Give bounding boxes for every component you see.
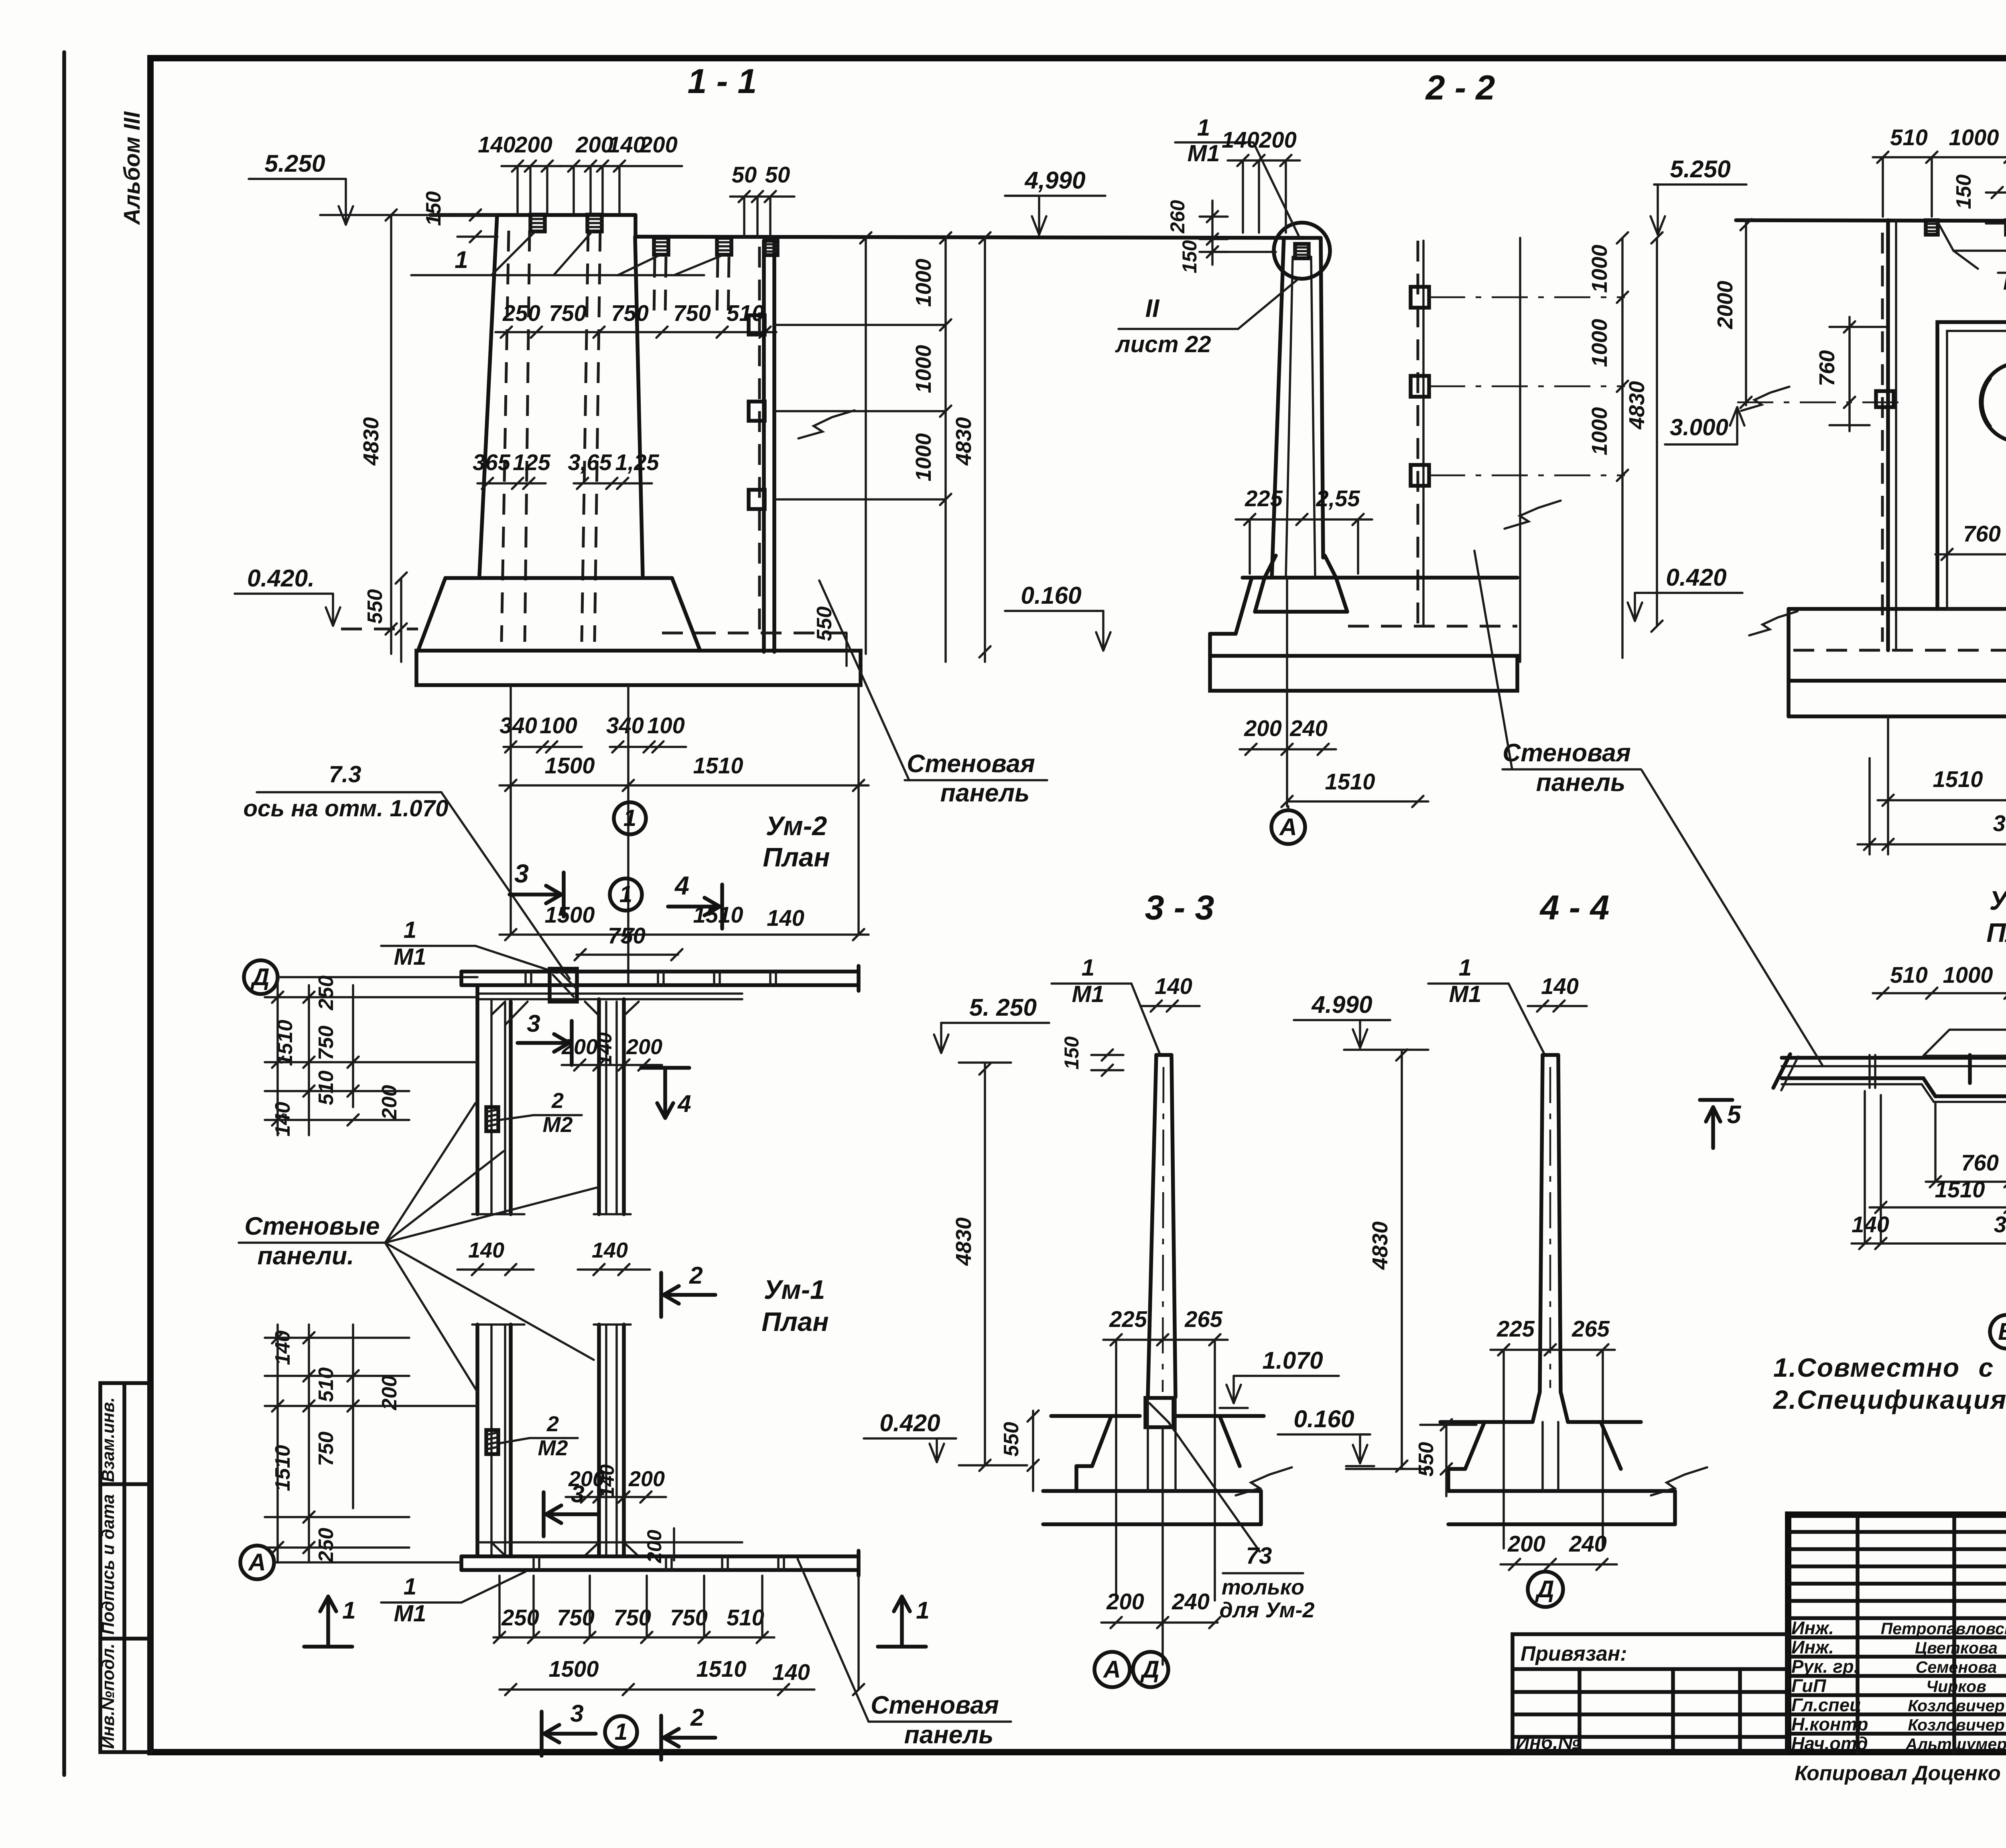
svg-text:5: 5 — [1727, 1101, 1742, 1129]
svg-text:4: 4 — [677, 1090, 691, 1117]
sheet outer trim line — [62, 52, 66, 1775]
section marks 3 / 1 / 4 above plan — [562, 872, 566, 917]
svg-text:4830: 4830 — [1625, 381, 1649, 430]
svg-text:750: 750 — [613, 1605, 651, 1630]
svg-text:Чирков: Чирков — [1926, 1677, 1986, 1696]
svg-text:1: 1 — [455, 246, 468, 273]
svg-text:1000: 1000 — [1588, 245, 1612, 293]
svg-text:Нач.отд: Нач.отд — [1791, 1733, 1868, 1754]
3-3 axis circles A D — [1094, 1652, 1130, 1687]
plan section mark 3 upper — [570, 1021, 574, 1065]
svg-text:225: 225 — [1496, 1316, 1535, 1341]
svg-text:Козловичер: Козловичер — [1908, 1696, 2004, 1715]
1-1 anchor leader diagonals — [491, 231, 535, 275]
svg-text:4.990: 4.990 — [1311, 991, 1373, 1018]
1-1 pos.1 leader line — [411, 274, 704, 276]
svg-text:ГиП: ГиП — [1791, 1676, 1827, 1696]
svg-text:Стеновая: Стеновая — [907, 750, 1035, 778]
svg-text:3020: 3020 — [1993, 811, 2006, 836]
svg-text:250: 250 — [314, 976, 337, 1011]
svg-text:Ум-2: Ум-2 — [766, 811, 827, 841]
1-1 dashed form lines col1 — [501, 231, 509, 642]
svg-text:750: 750 — [608, 923, 646, 948]
plan side section marks 1 — [304, 1645, 352, 1649]
svg-text:А: А — [248, 1548, 266, 1576]
svg-text:ось на отм. 1.070: ось на отм. 1.070 — [244, 795, 449, 822]
signature upper empty rows — [1788, 1530, 2006, 1534]
1-1 top slab line upper — [430, 213, 636, 217]
svg-text:2: 2 — [690, 1704, 704, 1731]
svg-text:II: II — [1145, 294, 1160, 323]
svg-text:250: 250 — [502, 300, 540, 326]
svg-text:2.Спецификация элементов см.: 2.Спецификация элементов см. л. л. КЖ -2… — [1773, 1385, 2006, 1414]
svg-text:140: 140 — [767, 905, 804, 931]
3-3 foundation — [1051, 1414, 1140, 1418]
svg-text:140: 140 — [1852, 1212, 1889, 1237]
svg-text:200: 200 — [628, 1467, 665, 1491]
5-5 dim verticals bottom — [1887, 716, 1889, 854]
2-2 hidden line 0.420 — [1348, 625, 1517, 628]
5-5 horizontal centerline — [1737, 402, 1906, 404]
1-1 wall left edge — [479, 215, 497, 575]
svg-text:1510: 1510 — [693, 902, 743, 927]
svg-text:750: 750 — [314, 1026, 337, 1061]
plan M1 joint box — [550, 969, 577, 1002]
svg-text:1510: 1510 — [271, 1445, 294, 1491]
1-1 dim verticals right — [865, 238, 867, 654]
svg-text:1: 1 — [1082, 955, 1094, 981]
svg-text:510: 510 — [1890, 125, 1928, 150]
svg-text:Копировал Доценко: Копировал Доценко — [1795, 1761, 2001, 1785]
5-5 wall tabs — [1876, 391, 1894, 407]
svg-text:М1: М1 — [1187, 140, 1220, 166]
plan upper fillets — [505, 1002, 528, 1025]
svg-text:1: 1 — [623, 805, 636, 831]
um5 M1 parallelogram — [1923, 1030, 2006, 1056]
svg-text:1: 1 — [404, 917, 416, 943]
svg-text:750: 750 — [314, 1432, 337, 1467]
svg-text:М2: М2 — [538, 1436, 568, 1460]
svg-text:1: 1 — [615, 1719, 627, 1745]
2-2 break mark — [1504, 501, 1561, 529]
svg-text:Ум-5: Ум-5 — [1990, 886, 2006, 916]
svg-text:200: 200 — [1244, 716, 1282, 741]
svg-text:План: План — [761, 1307, 828, 1337]
svg-text:5.250: 5.250 — [1670, 155, 1731, 183]
1-1 top slab line lower level — [636, 237, 1304, 238]
svg-text:Альтшумер: Альтшумер — [1905, 1735, 2006, 1753]
svg-text:750: 750 — [611, 300, 649, 326]
svg-text:Д: Д — [250, 963, 270, 990]
svg-text:М1: М1 — [394, 1601, 426, 1627]
svg-text:340: 340 — [499, 713, 537, 738]
1-1 foundation trapezoid — [445, 576, 672, 580]
signature rows — [1788, 1616, 2006, 1620]
svg-text:0.160: 0.160 — [1021, 582, 1082, 609]
axis A circle — [240, 1546, 274, 1579]
svg-text:365: 365 — [473, 450, 510, 475]
svg-text:4830: 4830 — [1368, 1221, 1392, 1270]
1-1 base slab — [416, 651, 861, 685]
plan bottom section marks — [540, 1712, 544, 1756]
um5 leader from left — [1642, 770, 1822, 1065]
svg-text:Д: Д — [1535, 1575, 1554, 1603]
1-1 4830 dim — [984, 238, 986, 662]
plan right vertical 4830 — [984, 1063, 986, 1465]
svg-text:140: 140 — [468, 1238, 504, 1262]
um5 panel top lines — [1782, 1056, 2006, 1060]
svg-text:панель: панель — [1536, 769, 1626, 797]
svg-text:5. 250: 5. 250 — [969, 994, 1037, 1021]
svg-text:125: 125 — [513, 450, 550, 475]
svg-text:лист 22: лист 22 — [1115, 331, 1211, 357]
plan section mark 2 upper-mid — [659, 1273, 663, 1317]
svg-text:М1: М1 — [394, 944, 426, 970]
svg-text:30 20: 30 20 — [1994, 1212, 2006, 1237]
5-5 left wall — [1886, 220, 1890, 650]
svg-text:Рук. гр.: Рук. гр. — [1791, 1656, 1859, 1677]
svg-text:4830: 4830 — [359, 417, 383, 466]
svg-text:1000: 1000 — [912, 433, 936, 481]
1-1 left 4830 dim — [390, 215, 392, 654]
svg-text:140: 140 — [1541, 974, 1579, 999]
3-3 M-box at base — [1145, 1398, 1174, 1427]
2-2 wall column — [1272, 238, 1284, 578]
svg-text:Гл.спец: Гл.спец — [1791, 1695, 1861, 1715]
3-3 central 4830 dim — [1401, 1050, 1403, 1469]
left attach table — [1513, 1634, 1788, 1752]
svg-text:1: 1 — [342, 1596, 356, 1624]
svg-text:Стеновая: Стеновая — [871, 1691, 999, 1719]
svg-text:0.420: 0.420 — [879, 1409, 940, 1436]
svg-text:760: 760 — [1963, 521, 2001, 546]
svg-text:140: 140 — [772, 1659, 810, 1685]
svg-text:200: 200 — [561, 1035, 598, 1059]
svg-text:550: 550 — [363, 589, 386, 624]
5-5 door opening — [1937, 322, 2006, 609]
svg-text:0.420: 0.420 — [1666, 564, 1727, 591]
plan bottom flange hatch ticks — [532, 1556, 535, 1570]
svg-text:140: 140 — [596, 1464, 618, 1497]
svg-text:1000: 1000 — [1588, 319, 1612, 367]
svg-text:250: 250 — [314, 1528, 337, 1563]
svg-text:3 - 3: 3 - 3 — [1145, 889, 1214, 927]
svg-text:А: А — [1102, 1655, 1121, 1683]
svg-text:0.160: 0.160 — [1293, 1405, 1354, 1432]
svg-text:100: 100 — [647, 713, 685, 738]
svg-text:510: 510 — [1890, 962, 1928, 988]
svg-text:200: 200 — [640, 132, 678, 157]
svg-text:Инж.: Инж. — [1791, 1618, 1834, 1638]
svg-text:200: 200 — [643, 1530, 666, 1563]
svg-text:только: только — [1222, 1575, 1304, 1599]
svg-text:1000: 1000 — [912, 259, 936, 307]
svg-text:550: 550 — [1414, 1442, 1437, 1477]
svg-text:М1: М1 — [1449, 981, 1481, 1007]
svg-text:2000: 2000 — [1713, 281, 1737, 329]
4-4 break right — [1651, 1467, 1707, 1495]
svg-text:2,55: 2,55 — [1316, 486, 1360, 511]
svg-text:50: 50 — [765, 162, 790, 187]
svg-text:200: 200 — [1259, 127, 1297, 152]
svg-text:140: 140 — [271, 1331, 294, 1365]
4-4 section mark 5 up — [1700, 1098, 1732, 1102]
svg-text:панель: панель — [940, 779, 1030, 807]
svg-text:1510: 1510 — [1325, 769, 1375, 794]
svg-text:760: 760 — [1815, 350, 1839, 386]
svg-text:3: 3 — [570, 1700, 584, 1727]
svg-text:100: 100 — [540, 713, 577, 738]
svg-text:Инб.№: Инб.№ — [1516, 1732, 1580, 1753]
svg-text:А: А — [1279, 813, 1297, 840]
svg-text:140: 140 — [592, 1238, 628, 1262]
svg-text:Ум-1: Ум-1 — [764, 1275, 825, 1305]
svg-text:4: 4 — [674, 871, 689, 900]
plan M2 hatch lower — [486, 1430, 498, 1454]
svg-text:М1: М1 — [1072, 981, 1104, 1007]
svg-text:510: 510 — [314, 1367, 337, 1402]
svg-text:1000: 1000 — [1949, 125, 1999, 150]
1-1 hidden foundation line — [662, 632, 859, 635]
svg-text:1510: 1510 — [693, 753, 743, 778]
svg-text:панель: панель — [904, 1721, 994, 1749]
svg-text:2 - 2: 2 - 2 — [1425, 69, 1495, 107]
3-3 73 leader — [1168, 1422, 1260, 1552]
2-2 tie lines dashdot — [1429, 296, 1625, 298]
svg-text:1: 1 — [1459, 955, 1472, 981]
svg-text:750: 750 — [673, 300, 711, 326]
svg-text:Семенова: Семенова — [1916, 1658, 1997, 1676]
svg-text:265: 265 — [1184, 1306, 1222, 1332]
svg-text:3: 3 — [514, 859, 529, 888]
svg-text:Стеновая: Стеновая — [1502, 739, 1631, 767]
1-1 break mark — [798, 410, 855, 438]
svg-text:150: 150 — [1178, 240, 1201, 273]
svg-text:Д: Д — [1140, 1655, 1159, 1683]
svg-text:1,25: 1,25 — [615, 450, 659, 475]
1-1 left level tie — [320, 214, 497, 216]
plan section mark 4 upper — [641, 1066, 689, 1070]
svg-text:План: План — [763, 842, 830, 872]
svg-text:Альбом III: Альбом III — [119, 111, 144, 225]
svg-text:140: 140 — [478, 132, 516, 157]
svg-text:150: 150 — [1060, 1036, 1083, 1069]
svg-text:1500: 1500 — [545, 902, 595, 927]
5-5 anchor plates top — [1926, 220, 1938, 235]
svg-text:150: 150 — [1952, 174, 1975, 209]
svg-text:340: 340 — [606, 713, 644, 738]
svg-text:3: 3 — [527, 1010, 540, 1037]
svg-text:4830: 4830 — [952, 1217, 976, 1266]
svg-text:750: 750 — [670, 1605, 708, 1630]
svg-text:Н.контр: Н.контр — [1791, 1714, 1868, 1734]
svg-text:1.Совместно с данным см. л.: 1.Совместно с данным см. л. л. КЖ -16, 2… — [1773, 1353, 2006, 1382]
svg-text:140: 140 — [1222, 127, 1259, 152]
4-4 wall column — [1540, 1055, 1543, 1392]
svg-text:200: 200 — [514, 132, 552, 157]
um5 joint ticks — [1968, 1055, 1972, 1083]
svg-text:240: 240 — [1569, 1531, 1607, 1556]
1-1 step down at top — [633, 215, 638, 237]
svg-text:Цветкова: Цветкова — [1915, 1639, 1998, 1657]
svg-text:225: 225 — [1245, 486, 1283, 511]
svg-text:0.420.: 0.420. — [247, 564, 315, 592]
1-1 dashed form lines col2 — [582, 231, 588, 642]
svg-text:510: 510 — [727, 1605, 764, 1630]
svg-text:750: 750 — [549, 300, 587, 326]
svg-text:1 - 1: 1 - 1 — [688, 62, 757, 101]
svg-text:Инж.: Инж. — [1791, 1637, 1834, 1657]
svg-text:2: 2 — [551, 1089, 564, 1113]
svg-text:План: План — [1986, 918, 2006, 948]
1-1 anchor plates at top — [530, 215, 545, 231]
5-5 base slab lines — [1789, 607, 1937, 611]
1-1 dashed stubs right walls — [654, 257, 655, 317]
5-5 top line — [1736, 220, 2006, 221]
svg-text:1500: 1500 — [545, 753, 595, 778]
plan M2 hatch upper — [486, 1107, 498, 1131]
axis D circle — [244, 960, 278, 994]
svg-text:В: В — [1998, 1318, 2006, 1345]
plan lower fillets — [491, 1542, 505, 1556]
plan bottom flange — [461, 1554, 859, 1558]
svg-text:73: 73 — [1246, 1543, 1272, 1569]
svg-text:1500: 1500 — [549, 1656, 599, 1682]
svg-text:3: 3 — [571, 1480, 585, 1507]
1-1 panel tabs — [749, 315, 765, 335]
1-1 wall panel (right) — [762, 241, 766, 652]
5-5 circular hole — [1981, 363, 2006, 442]
2-2 panel tabs — [1411, 287, 1429, 308]
um5 axis circle B — [1990, 1315, 2006, 1349]
um5 panel bottom lines with M1 dip — [1782, 1078, 2006, 1096]
svg-text:200: 200 — [1106, 1589, 1144, 1614]
svg-text:1510: 1510 — [1933, 767, 1983, 792]
svg-text:225: 225 — [1109, 1306, 1147, 1332]
svg-text:240: 240 — [1289, 716, 1328, 741]
svg-text:1000: 1000 — [1943, 962, 1993, 988]
plan top flange hatch ticks — [524, 972, 527, 985]
svg-text:510: 510 — [314, 1071, 337, 1106]
svg-text:1: 1 — [1197, 115, 1210, 141]
3-3 break right — [1236, 1467, 1292, 1495]
2-2 foundation — [1243, 576, 1517, 580]
2-2 dim verticals — [1519, 238, 1521, 662]
svg-text:панели.: панели. — [257, 1242, 354, 1270]
svg-text:4 - 4: 4 - 4 — [1539, 889, 1610, 927]
svg-text:200: 200 — [1507, 1531, 1545, 1556]
3-3 wall column — [1148, 1055, 1156, 1397]
2-2 wall top cap — [1284, 236, 1321, 240]
svg-text:1: 1 — [404, 1574, 416, 1600]
svg-text:140: 140 — [1155, 974, 1192, 999]
plan right web upper — [597, 999, 601, 1214]
svg-text:М2: М2 — [542, 1113, 573, 1137]
svg-text:1510: 1510 — [696, 1656, 747, 1682]
4-4 foundation — [1440, 1420, 1533, 1424]
svg-text:1000: 1000 — [1588, 407, 1612, 455]
svg-text:7.3: 7.3 — [329, 761, 361, 787]
plan section mark 3 lower — [542, 1492, 546, 1536]
svg-text:1: 1 — [619, 881, 632, 907]
2-2 detail circle — [1274, 223, 1330, 279]
signature table columns — [1856, 1515, 1860, 1752]
plan left web upper — [475, 985, 479, 1214]
svg-text:1510: 1510 — [1935, 1177, 1985, 1202]
svg-text:2: 2 — [689, 1262, 703, 1289]
svg-text:50: 50 — [732, 162, 757, 187]
svg-text:3.000: 3.000 — [1670, 414, 1728, 440]
стеновые панели leader fan — [385, 1103, 475, 1243]
svg-text:Привязан:: Привязан: — [1521, 1642, 1627, 1665]
svg-text:265: 265 — [1572, 1316, 1610, 1341]
2-2 axis circle A — [1271, 810, 1305, 844]
svg-text:200: 200 — [626, 1035, 662, 1059]
5-5 break marks bottom — [1749, 611, 1797, 635]
svg-text:1: 1 — [916, 1596, 930, 1624]
svg-text:4830: 4830 — [952, 417, 976, 466]
um5 left break — [1773, 1054, 1790, 1088]
plan left web lower — [475, 1325, 479, 1556]
svg-text:1.070: 1.070 — [1262, 1347, 1323, 1374]
svg-text:150: 150 — [422, 191, 445, 226]
svg-text:Стеновые: Стеновые — [244, 1212, 380, 1240]
plan right web lower — [597, 1325, 601, 1556]
svg-text:Взам.инв.: Взам.инв. — [99, 1397, 118, 1482]
svg-text:Инв.№подл.: Инв.№подл. — [99, 1643, 118, 1749]
svg-text:Козловичер: Козловичер — [1908, 1716, 2004, 1734]
circled axis 1 below 1-1 — [614, 802, 646, 834]
svg-text:1000: 1000 — [912, 345, 936, 393]
svg-text:Петропавловская: Петропавловская — [1881, 1619, 2006, 1638]
plan top flange — [461, 970, 859, 974]
svg-text:5.250: 5.250 — [264, 150, 325, 177]
svg-text:4,990: 4,990 — [1024, 166, 1086, 194]
svg-text:240: 240 — [1172, 1589, 1210, 1614]
svg-text:760: 760 — [1961, 1150, 1999, 1175]
TITLE BLOCK — [1788, 1515, 2006, 1752]
svg-text:260: 260 — [1166, 200, 1189, 233]
svg-text:2: 2 — [546, 1412, 559, 1436]
svg-text:Подпись и дата: Подпись и дата — [99, 1494, 118, 1635]
svg-text:для Ум-2: для Ум-2 — [1220, 1598, 1315, 1622]
svg-text:3,65: 3,65 — [568, 450, 612, 475]
svg-text:550: 550 — [999, 1422, 1023, 1457]
left sidebar stamp strip — [100, 1383, 150, 1752]
1-1 tie lines to dims — [774, 324, 946, 326]
1-1 wall right col solid edge — [635, 237, 643, 575]
5-5 hopper — [1937, 221, 2006, 251]
2-2 right panel dashed — [1417, 241, 1419, 626]
4-4 axis circle D — [1528, 1572, 1563, 1607]
